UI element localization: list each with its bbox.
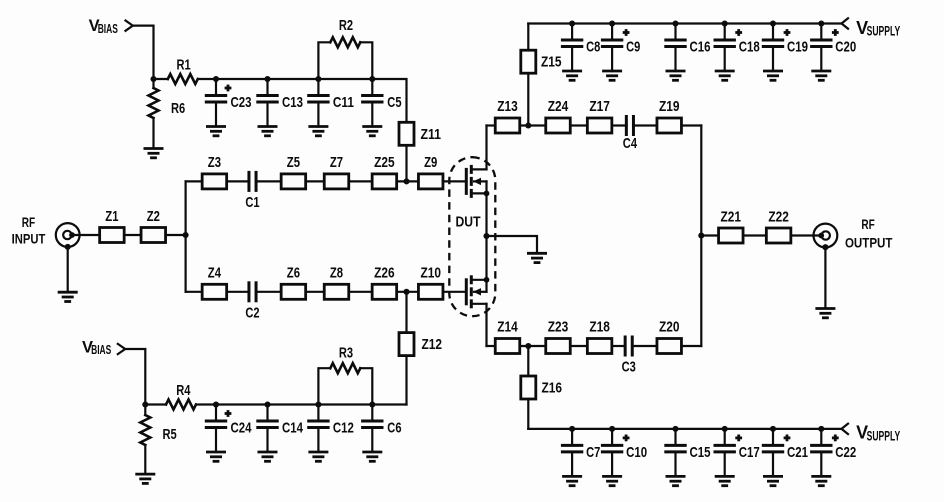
wire C2 to Z6 — [256, 291, 281, 293]
svg-text:RF: RF — [22, 214, 36, 230]
svg-text:Z7: Z7 — [330, 154, 343, 171]
impedance Z2 — [141, 208, 166, 243]
impedance Z13 — [495, 98, 520, 133]
capacitor C22 — [811, 426, 856, 486]
wire Z12 top connection — [405, 292, 407, 333]
wire Z20 to output vertical — [681, 345, 701, 347]
svg-text:R4: R4 — [176, 382, 191, 399]
transistor Q1 upper FET — [466, 165, 489, 198]
svg-text:C18: C18 — [739, 39, 760, 56]
capacitor C4 — [623, 117, 638, 153]
connector J1 RF input — [56, 223, 80, 247]
impedance Z12 — [399, 333, 442, 356]
svg-text:Z23: Z23 — [548, 318, 569, 335]
svg-text:Z1: Z1 — [105, 208, 118, 225]
wire Z12 to bottom bias rail — [405, 356, 407, 405]
node VSUPPLY top label — [856, 18, 900, 39]
wire center node to ground — [487, 236, 538, 253]
impedance Z19 — [657, 98, 682, 133]
impedance Z25 — [372, 154, 397, 189]
impedance Z1 — [100, 208, 125, 243]
svg-text:C4: C4 — [623, 135, 638, 152]
resistor R6 — [149, 79, 186, 148]
svg-text:R2: R2 — [339, 17, 353, 34]
svg-text:Z2: Z2 — [147, 208, 160, 225]
wire Q1 drain corner to Z13 — [487, 124, 496, 126]
wire VBIAS top to bias node — [133, 26, 154, 79]
node Z13 Z15 junction — [525, 122, 531, 128]
wire Z25 to Z9 with node — [397, 180, 419, 182]
connector J2 RF output — [814, 224, 838, 248]
capacitor C19 — [763, 20, 808, 80]
wire C4 to Z19 — [633, 124, 657, 126]
capacitor C9 — [602, 20, 640, 80]
node VBIAS bottom connector chevron — [118, 344, 125, 354]
wire Z17 to C4 — [612, 124, 627, 126]
capacitor C21 — [763, 426, 808, 486]
wire Z8 to Z26 — [349, 291, 372, 293]
svg-text:C5: C5 — [387, 94, 401, 111]
wire input shield to ground — [67, 247, 69, 292]
impedance Z7 — [324, 154, 349, 189]
svg-text:OUTPUT: OUTPUT — [845, 234, 893, 250]
impedance Z9 — [418, 154, 443, 189]
node DUT center — [483, 233, 489, 239]
node bottom branch junction — [403, 289, 409, 295]
svg-text:C6: C6 — [387, 420, 401, 437]
RF OUTPUT label — [845, 216, 893, 250]
resistor R4 — [145, 382, 216, 410]
capacitor C1 — [245, 172, 259, 211]
impedance Z11 — [399, 122, 441, 145]
impedance Z8 — [324, 264, 349, 299]
impedance Z15 — [521, 50, 562, 73]
svg-text:C23: C23 — [231, 94, 252, 111]
ground under RF input — [58, 292, 78, 301]
wire Z16 top connection — [527, 346, 529, 376]
svg-text:C2: C2 — [245, 304, 259, 321]
capacitor C13 — [258, 76, 304, 136]
svg-text:C9: C9 — [626, 39, 640, 56]
wire Z9 to upper gate — [443, 180, 466, 182]
wire Z22 to output connector — [791, 234, 821, 236]
impedance Z6 — [281, 264, 306, 299]
wire Q1 drain up — [485, 126, 487, 170]
wire output shield to ground — [824, 247, 826, 308]
wire Z15 bottom connection — [527, 73, 529, 125]
svg-text:Z16: Z16 — [542, 380, 563, 397]
ground under RF output — [815, 309, 835, 318]
capacitor C18 — [715, 20, 760, 80]
wire Z1 to Z2 — [124, 234, 141, 236]
wire bottom bias rail — [216, 403, 407, 405]
svg-text:Z14: Z14 — [497, 318, 518, 335]
svg-text:BIAS: BIAS — [98, 22, 118, 36]
node VSUPPLY bottom connector chevron — [842, 424, 849, 434]
svg-text:C13: C13 — [282, 94, 303, 111]
svg-text:Z12: Z12 — [422, 336, 443, 353]
capacitor C8 — [562, 20, 600, 80]
svg-text:Z22: Z22 — [768, 208, 789, 225]
node bias top junction dot — [150, 76, 156, 82]
wire Z26 to Z10 with node — [397, 291, 419, 293]
impedance Z21 — [719, 208, 744, 243]
svg-text:C19: C19 — [787, 39, 808, 56]
wire Z10 to lower gate — [443, 291, 466, 293]
wire Z2 to splitter junction — [166, 234, 186, 236]
node input connector shield dot — [65, 244, 71, 250]
wire output node to Z21 — [701, 234, 718, 236]
capacitor C7 — [562, 426, 600, 486]
impedance Z16 — [521, 376, 562, 399]
svg-text:Z26: Z26 — [374, 264, 395, 281]
capacitor C15 — [666, 426, 711, 486]
svg-text:Z21: Z21 — [721, 208, 742, 225]
svg-text:C21: C21 — [787, 444, 808, 461]
svg-text:C16: C16 — [690, 39, 711, 56]
capacitor C20 — [811, 20, 856, 80]
wire Z4 to C2 — [227, 291, 250, 293]
svg-text:Z6: Z6 — [287, 264, 300, 281]
capacitor C14 — [258, 401, 304, 461]
wire Z14 to Z23 with node — [520, 345, 546, 347]
impedance Z24 — [546, 98, 571, 133]
svg-text:SUPPLY: SUPPLY — [867, 23, 901, 38]
svg-text:RF: RF — [861, 216, 875, 232]
node VBIAS bottom label — [82, 338, 111, 357]
svg-text:Z24: Z24 — [548, 98, 569, 115]
svg-text:R5: R5 — [163, 426, 177, 443]
wire C3 to Z20 — [632, 345, 657, 347]
svg-text:C20: C20 — [835, 39, 856, 56]
ground under R5 — [135, 474, 155, 483]
DUT dashed outline — [449, 157, 495, 316]
resistor R1 — [154, 57, 217, 84]
node splitter junction — [183, 232, 189, 238]
capacitor C6 — [362, 401, 401, 461]
capacitor C5 — [362, 76, 401, 136]
svg-text:Z10: Z10 — [420, 264, 441, 281]
svg-text:Z13: Z13 — [497, 98, 518, 115]
wire Z19 to output vertical — [681, 124, 701, 126]
svg-text:Z11: Z11 — [421, 126, 442, 143]
wire top branch start — [186, 180, 203, 182]
svg-text:C22: C22 — [835, 444, 856, 461]
svg-text:Z8: Z8 — [330, 264, 343, 281]
impedance Z18 — [587, 318, 612, 353]
wire Z18 to C3 — [612, 345, 626, 347]
ground under R6 — [144, 149, 164, 158]
wire bottom branch start — [186, 291, 203, 293]
wire Q2 drain down — [485, 304, 487, 346]
svg-text:Z19: Z19 — [659, 98, 680, 115]
svg-text:Z17: Z17 — [589, 98, 610, 115]
wire Z5 to Z7 — [306, 180, 325, 182]
wire C1 to Z5 — [256, 180, 281, 182]
impedance Z23 — [546, 318, 571, 353]
node output junction — [698, 232, 704, 238]
capacitor C11 — [308, 76, 354, 136]
capacitor C12 — [308, 401, 354, 461]
capacitor C2 — [245, 283, 259, 322]
wire Z24 to Z17 — [570, 124, 587, 126]
impedance Z3 — [202, 154, 227, 189]
node output connector shield dot — [822, 244, 828, 250]
svg-text:C3: C3 — [622, 359, 636, 376]
capacitor C3 — [622, 337, 636, 376]
capacitor C23 — [206, 76, 252, 136]
svg-text:C14: C14 — [282, 420, 303, 437]
svg-text:R1: R1 — [177, 57, 191, 74]
svg-text:R6: R6 — [171, 100, 185, 117]
svg-text:Z15: Z15 — [541, 54, 562, 71]
impedance Z26 — [372, 264, 397, 299]
wire Z13 to Z24 with node — [520, 124, 546, 126]
svg-text:C24: C24 — [231, 420, 252, 437]
svg-text:R3: R3 — [339, 344, 353, 361]
transistor Q2 lower FET — [466, 275, 489, 308]
svg-text:Z3: Z3 — [208, 154, 221, 171]
wire Q2 drain corner to Z14 — [487, 345, 496, 347]
wire bottom supply rail — [528, 428, 841, 430]
impedance Z4 — [202, 264, 227, 299]
svg-text:C8: C8 — [586, 39, 600, 56]
node top branch junction — [403, 178, 409, 184]
ground DUT source — [527, 253, 547, 262]
impedance Z5 — [281, 154, 306, 189]
wire input center to Z1 — [72, 234, 100, 236]
capacitor C24 — [206, 401, 252, 461]
svg-text:BIAS: BIAS — [91, 343, 111, 357]
wire splitter vertical — [185, 181, 187, 291]
svg-text:C17: C17 — [739, 444, 760, 461]
wire Z16 to bottom supply rail — [527, 399, 529, 429]
svg-text:C10: C10 — [626, 444, 647, 461]
wire Z7 to Z25 — [349, 180, 372, 182]
svg-text:C1: C1 — [245, 194, 259, 211]
node bias bottom junction dot — [142, 401, 148, 407]
svg-text:INPUT: INPUT — [12, 231, 46, 247]
wire top bias rail — [216, 79, 407, 122]
RF INPUT label — [12, 214, 46, 247]
impedance Z10 — [418, 264, 443, 299]
impedance Z17 — [587, 98, 612, 133]
wire Z21 to Z22 — [743, 234, 766, 236]
impedance Z14 — [495, 318, 520, 353]
impedance Z22 — [766, 208, 791, 243]
svg-text:Z18: Z18 — [589, 318, 610, 335]
svg-text:Z5: Z5 — [287, 154, 300, 171]
svg-text:Z9: Z9 — [424, 154, 437, 171]
capacitor C16 — [666, 20, 711, 80]
svg-text:Z25: Z25 — [374, 154, 395, 171]
capacitor C10 — [602, 426, 647, 486]
svg-text:DUT: DUT — [456, 214, 481, 231]
node VBIAS top connector chevron — [126, 21, 133, 31]
svg-text:SUPPLY: SUPPLY — [867, 428, 901, 443]
wire Z11 to top branch — [405, 145, 407, 181]
svg-text:C7: C7 — [586, 444, 600, 461]
wire Z6 to Z8 — [306, 291, 325, 293]
wire Q2 source up to center node — [485, 236, 487, 280]
node VSUPPLY top connector chevron — [842, 18, 849, 28]
svg-text:C15: C15 — [690, 444, 711, 461]
resistor R2 — [318, 17, 372, 79]
node VSUPPLY bottom label — [856, 423, 900, 444]
wire VBIAS bottom to bias node — [125, 349, 145, 405]
node Z14 Z16 junction — [525, 343, 531, 349]
wire Z23 to Z18 — [570, 345, 587, 347]
wire output combiner vertical — [700, 126, 702, 347]
svg-text:C11: C11 — [333, 94, 354, 111]
svg-text:Z20: Z20 — [659, 318, 680, 335]
wire Z3 to C1 — [227, 180, 250, 182]
svg-text:C12: C12 — [333, 420, 354, 437]
wire Z15 to top supply rail — [527, 24, 529, 51]
wire top supply rail — [528, 22, 841, 24]
svg-text:Z4: Z4 — [208, 264, 222, 281]
node VBIAS top label — [89, 17, 118, 36]
capacitor C17 — [715, 426, 760, 486]
resistor R5 — [140, 405, 176, 474]
wire Q1 source down to center node — [485, 193, 487, 236]
impedance Z20 — [657, 318, 682, 353]
resistor R3 — [318, 344, 372, 404]
